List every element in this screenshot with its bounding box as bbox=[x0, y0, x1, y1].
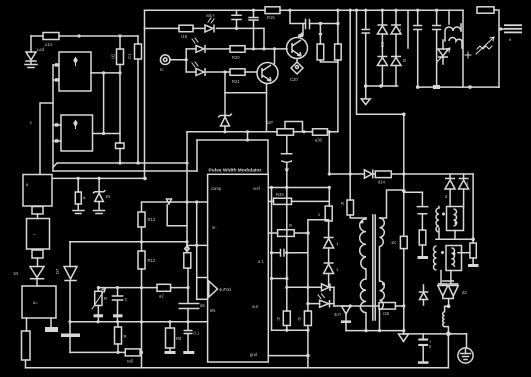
R10 column lower bbox=[187, 268, 189, 322]
varistor RV1 bbox=[477, 46, 492, 49]
svg-text:vref: vref bbox=[253, 186, 261, 191]
transistor Q2 bbox=[257, 63, 278, 84]
resistor R12 bbox=[138, 251, 145, 269]
svg-text:gnd: gnd bbox=[250, 352, 258, 357]
svg-text:vdc+: vdc+ bbox=[206, 13, 216, 18]
ground below LED bbox=[25, 62, 37, 68]
Q2 collector up bbox=[274, 49, 276, 64]
wire y352.4 bbox=[70, 351, 142, 353]
T1 lower left winding bbox=[360, 279, 366, 313]
svg-text:Pulse Width Modulator: Pulse Width Modulator bbox=[209, 167, 262, 173]
rectifier diode D17 bbox=[438, 283, 448, 285]
common mode choke L1 bbox=[448, 10, 450, 24]
bridge rail x366 with cap bbox=[362, 10, 369, 86]
bus L2 y171 bbox=[53, 170, 197, 172]
rectifier block B1 box bbox=[27, 219, 50, 250]
wire y240.5 from diode col bbox=[70, 241, 142, 243]
pin wire y202 with wiper arrow bbox=[142, 202, 208, 212]
resistor R22 bbox=[283, 311, 290, 326]
svg-text:R21: R21 bbox=[232, 79, 240, 84]
chassis triangle bbox=[403, 331, 405, 334]
resistor R35 on rail x350.2 bbox=[349, 174, 351, 200]
resistor R30 bbox=[313, 129, 328, 135]
transformer block TR1 box bbox=[23, 175, 52, 207]
R29 wiper loop bbox=[285, 122, 303, 132]
svg-text:1N: 1N bbox=[13, 271, 18, 276]
resistor R9 to ground bbox=[169, 322, 171, 328]
svg-text:R15: R15 bbox=[267, 15, 275, 20]
x334 connector bbox=[333, 287, 335, 306]
resistor R34 bbox=[375, 171, 391, 178]
svg-text:a2: a2 bbox=[159, 294, 164, 299]
svg-text:r26: r26 bbox=[383, 311, 390, 316]
resistor R13 bbox=[138, 212, 145, 227]
svg-text:R9: R9 bbox=[176, 336, 182, 341]
svg-text:R: R bbox=[298, 317, 301, 322]
bridge bottom wire bbox=[366, 85, 398, 87]
node dot vcc column bbox=[235, 27, 238, 30]
capacitor C25 bbox=[113, 288, 123, 314]
regulator block B2 box bbox=[22, 286, 56, 318]
svg-text:C: C bbox=[125, 297, 128, 302]
svg-text:0.1: 0.1 bbox=[194, 331, 200, 336]
bus L1 y163 bbox=[54, 163, 188, 167]
pin wire y299.3 bbox=[197, 298, 208, 300]
svg-text:a 1: a 1 bbox=[258, 259, 264, 264]
svg-text:D: D bbox=[403, 58, 406, 63]
pot R24 bbox=[97, 288, 99, 292]
svg-text:R: R bbox=[104, 296, 107, 301]
diode D13 bbox=[324, 263, 334, 274]
Q1 emitter diamond indicator bbox=[296, 59, 298, 63]
resistor R33 bbox=[274, 198, 292, 204]
node dot C bbox=[102, 71, 105, 74]
phase dots bbox=[361, 221, 364, 224]
rung y303.6 opto LED D11 bbox=[308, 303, 334, 305]
LED D1 bbox=[26, 52, 36, 60]
diode D16 bbox=[463, 174, 465, 178]
rail x356.5 L-path to lower bus bbox=[357, 10, 404, 114]
transformer T2 bbox=[436, 208, 439, 232]
T3 legs down bbox=[441, 271, 453, 284]
snubber cap row bbox=[290, 10, 338, 23]
trimmer R29 bbox=[277, 129, 294, 135]
Q2 emitter down bbox=[225, 84, 267, 93]
TVS zener pair bbox=[438, 49, 448, 57]
corner down x264 bbox=[263, 28, 265, 49]
right leg pad bbox=[50, 318, 52, 327]
node dot A bbox=[77, 34, 80, 37]
return to bus bbox=[447, 334, 449, 368]
rail x350.2 bbox=[349, 10, 351, 174]
resistor R15 on top bus bbox=[265, 7, 280, 14]
rectifier diode D18 bbox=[448, 283, 458, 285]
svg-text:d2: d2 bbox=[462, 290, 467, 295]
resistor R19 bbox=[179, 25, 193, 32]
small diode D19 near left bbox=[420, 293, 428, 300]
capacitor C23 bbox=[417, 192, 427, 230]
LED D5 row bbox=[186, 71, 257, 73]
ferrite bead FB1 bbox=[185, 246, 190, 251]
cap C15 under top wire bbox=[249, 10, 258, 49]
svg-text:C20: C20 bbox=[290, 77, 298, 82]
svg-text:4uF0d: 4uF0d bbox=[219, 287, 232, 292]
X-cap column x417.7 bbox=[414, 10, 422, 87]
thermal fuse on x70 bbox=[69, 322, 71, 333]
jog to x40 bbox=[40, 103, 53, 175]
svg-text:6N: 6N bbox=[210, 308, 215, 313]
resistor R14 bbox=[43, 33, 59, 40]
rung y278.5 bbox=[272, 278, 287, 280]
top bus y10.2 bbox=[145, 9, 464, 11]
resistor R8 bbox=[157, 284, 171, 291]
svg-text:1K: 1K bbox=[391, 240, 396, 245]
splitter vertical bbox=[185, 49, 187, 72]
wire y140 bbox=[197, 140, 268, 174]
vertical x144.5 from LED row to dot bbox=[144, 28, 146, 178]
svg-text:U2: U2 bbox=[111, 53, 116, 59]
tab under B1 bbox=[32, 250, 43, 258]
rail x196.7 bbox=[196, 202, 198, 300]
resistor R5 bbox=[116, 143, 125, 149]
pin wire y233 with R32 bbox=[268, 232, 308, 234]
node dots on bus bbox=[77, 177, 80, 180]
rail x402 lower bbox=[403, 174, 405, 331]
svg-text:in-: in- bbox=[212, 225, 217, 230]
svg-text:R13: R13 bbox=[148, 217, 156, 222]
column x141.5 bbox=[141, 227, 143, 352]
cap C14 under top wire bbox=[232, 10, 241, 28]
snubber resistor R2 column bbox=[319, 22, 322, 25]
chassis diode column x346 bbox=[342, 306, 351, 314]
pin wire y321.8 bbox=[70, 321, 208, 323]
wire y333.9 bbox=[404, 333, 467, 335]
transformer T3 bbox=[434, 246, 437, 270]
T3 tap to resistor R17 bbox=[458, 252, 470, 254]
corner from top wire bbox=[144, 10, 146, 28]
ground pad bbox=[468, 264, 479, 267]
wire y241.8 to IC bbox=[142, 242, 208, 246]
bridge diode DB1 bbox=[381, 10, 383, 24]
resistor R27 bbox=[117, 322, 119, 327]
vertical x307.9 bbox=[307, 233, 309, 356]
wire y28.4 bbox=[145, 27, 265, 29]
zener ZD2 bbox=[224, 72, 226, 117]
svg-text:C1: C1 bbox=[127, 53, 132, 59]
node dot D bbox=[102, 132, 105, 135]
zener column node on R21 wire bbox=[223, 70, 226, 73]
resistor R23 bbox=[304, 311, 311, 326]
rail x271.5 bbox=[271, 188, 273, 331]
bus L3 y178.4 from block1 edge bbox=[53, 177, 145, 179]
LED D4 row bbox=[186, 48, 287, 50]
U1 left pins bbox=[53, 65, 59, 80]
svg-text:d14: d14 bbox=[378, 180, 386, 185]
X-cap column x436.6 bbox=[433, 10, 441, 87]
pin wire y277.5 bbox=[197, 277, 208, 279]
node dot B bbox=[118, 34, 121, 37]
T1 secondary winding right upper bbox=[380, 218, 385, 247]
svg-text:R: R bbox=[341, 201, 344, 206]
tab between blocks bbox=[32, 207, 43, 215]
resistor R21 bbox=[230, 69, 245, 76]
node dots on top bus bbox=[252, 9, 255, 12]
bus y174 bbox=[329, 173, 473, 175]
svg-text:r19: r19 bbox=[181, 34, 188, 39]
left rail x52 bbox=[52, 65, 54, 141]
output choke L2 bbox=[445, 306, 449, 312]
U2 right pin bbox=[93, 133, 121, 135]
snubber branch wire y192.3 bbox=[402, 189, 406, 193]
diode D15 bbox=[449, 174, 451, 178]
svg-text:4n?: 4n? bbox=[334, 312, 342, 317]
resistor R20 bbox=[230, 46, 245, 53]
resistor R32 bbox=[278, 230, 295, 237]
zener ZD1 to ground bbox=[98, 178, 100, 191]
x141.5 to bottom bus bbox=[141, 352, 143, 367]
svg-text:c: c bbox=[30, 120, 32, 125]
resistor R17 on right rail bbox=[470, 243, 476, 258]
svg-text:R20: R20 bbox=[232, 55, 240, 60]
diode D2 bbox=[30, 267, 44, 278]
error amp triangle on IC bbox=[209, 281, 218, 297]
opto/regulator U2 box bbox=[61, 115, 93, 151]
rail x403.8 down to bus bbox=[403, 114, 405, 174]
wire jack to splitter bbox=[170, 59, 186, 61]
svg-text:R: R bbox=[289, 223, 292, 228]
T2 bottom wire y239.2 bbox=[436, 238, 473, 240]
resistor R3 to ground bbox=[77, 178, 79, 192]
svg-text:R12: R12 bbox=[148, 258, 156, 263]
svg-text:R: R bbox=[124, 334, 127, 339]
rung y330.2 bbox=[272, 329, 308, 331]
ground pad bbox=[418, 256, 429, 259]
resistor R18 bbox=[419, 230, 426, 245]
rail x337.9 with resistor R28 bbox=[337, 10, 339, 132]
pin wire y201.4 with R33 bbox=[268, 200, 329, 202]
capacitor C5 0.1 to ground bbox=[184, 322, 192, 351]
link stub between y131.8 and y140 bbox=[247, 132, 249, 140]
resistor R36 on rail bbox=[400, 236, 407, 248]
rail x330 bbox=[328, 132, 330, 174]
wiper jog from arrow bbox=[167, 205, 187, 226]
svg-text:a=: a= bbox=[33, 300, 38, 305]
diode D10 bbox=[322, 284, 331, 292]
corner bus y174 down right rail bbox=[472, 174, 474, 243]
svg-text:R33: R33 bbox=[276, 192, 284, 197]
rung y287.3 to opto LED bbox=[287, 286, 334, 288]
svg-text:ra5: ra5 bbox=[127, 359, 134, 364]
Q1 collector branch bbox=[299, 24, 303, 36]
wire y132 long bbox=[187, 131, 338, 133]
ground arrow bbox=[365, 86, 367, 99]
diode D14 bbox=[364, 170, 372, 179]
svg-text:1N: 1N bbox=[105, 194, 110, 199]
svg-text:comp: comp bbox=[211, 186, 222, 191]
svg-text:u14: u14 bbox=[45, 42, 53, 47]
output cap C22 bbox=[422, 334, 424, 339]
svg-text:d6: d6 bbox=[200, 303, 205, 308]
U1 right pin to node bbox=[91, 72, 120, 74]
wire top-left horizontal bbox=[31, 35, 138, 37]
left leg to fuse bbox=[26, 318, 28, 331]
svg-text:out: out bbox=[252, 304, 259, 309]
wire to LED bbox=[30, 36, 32, 52]
fuse F1 bbox=[22, 331, 31, 360]
input jack J1 bbox=[160, 55, 170, 65]
resistor R10 bbox=[184, 253, 191, 268]
plug P1 bbox=[466, 334, 468, 348]
T1 lower right winding bbox=[380, 281, 385, 310]
bridge diode DB3 bbox=[395, 10, 397, 24]
bridge diode DB4 bbox=[395, 34, 397, 56]
bottom bus bbox=[26, 367, 449, 369]
column x328.6: resistor R31 bbox=[328, 188, 330, 207]
Q2 emitter rail down bbox=[266, 93, 268, 132]
T1 core bbox=[373, 215, 375, 320]
svg-text:R: R bbox=[277, 317, 280, 322]
resistor R1 column bbox=[137, 36, 139, 44]
diode D7 column bbox=[69, 242, 71, 267]
rung y252.7 with cap C19 bbox=[272, 252, 308, 254]
capacitor C6 bbox=[179, 304, 199, 309]
link to R31 bottom bbox=[308, 220, 329, 233]
IC pin y187.5 wire to rail x329.3 bbox=[268, 187, 329, 189]
right loop: wire + resistor R16 bbox=[462, 10, 464, 87]
electrolytic cap C21 chain x286.8 bbox=[282, 135, 292, 187]
bridge diode DB2 bbox=[381, 34, 383, 56]
T1 primary winding left bbox=[360, 219, 366, 269]
svg-text:D2: D2 bbox=[380, 41, 385, 47]
svg-text:D7: D7 bbox=[55, 268, 60, 274]
transistor Q1 bbox=[287, 38, 308, 59]
corner x187 down left rail bbox=[186, 132, 188, 253]
diode join node bbox=[443, 296, 454, 306]
bottom wire y87.1 bbox=[418, 86, 499, 88]
svg-text:Led: Led bbox=[37, 47, 45, 52]
AC terminal block bbox=[499, 28, 504, 30]
svg-text:a30: a30 bbox=[315, 138, 323, 143]
wire y306 row: resistor R26 bbox=[334, 305, 379, 307]
capacitor C16 bbox=[306, 20, 310, 29]
vertical x103.6 bbox=[103, 73, 105, 134]
IC U3 pulse width modulator box bbox=[208, 174, 269, 362]
resistor R25 bbox=[125, 349, 140, 356]
wire y330.6 bbox=[346, 330, 404, 332]
U2 left pins bbox=[53, 125, 61, 141]
IC gnd pin wire y355.6 bbox=[268, 355, 308, 357]
wire y287.6 with R8 bbox=[98, 287, 188, 289]
opto/regulator U1 box bbox=[59, 52, 91, 91]
vertical x286.8 bbox=[286, 188, 288, 331]
diode D12 bbox=[324, 238, 334, 249]
node output junction bbox=[446, 331, 451, 336]
rail x408 stub bbox=[407, 10, 409, 48]
resistor R6 column x120 bbox=[119, 36, 121, 49]
LED D3 bbox=[205, 25, 214, 33]
